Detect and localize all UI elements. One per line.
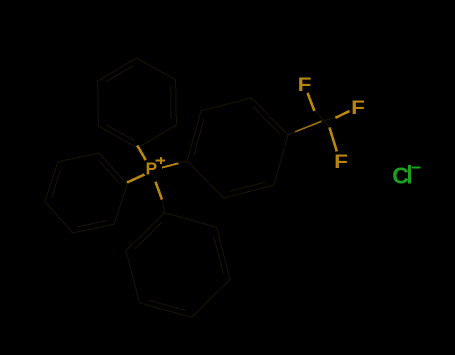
phenyl ring A (top)	[98, 58, 177, 148]
phenyl ring C (bottom)	[126, 213, 230, 318]
phenyl ring B (left)	[45, 153, 127, 233]
svg-text:F: F	[298, 75, 312, 96]
benzene ring D (4-CF3-phenylene)	[187, 98, 288, 198]
svg-text:C: C	[392, 163, 409, 189]
svg-text:F: F	[334, 152, 348, 173]
bond P-ring D	[162, 163, 178, 167]
bond P-ring C	[156, 182, 163, 200]
bond C-F2	[324, 118, 336, 121]
bond P-ring B	[127, 175, 145, 183]
svg-text:P: P	[145, 159, 157, 179]
bond C-F3	[324, 121, 330, 128]
bond P-ring A	[137, 146, 146, 161]
svg-text:F: F	[351, 98, 365, 119]
bond C-F1	[315, 111, 324, 121]
bond ring D - CF3 carbon	[288, 132, 295, 135]
